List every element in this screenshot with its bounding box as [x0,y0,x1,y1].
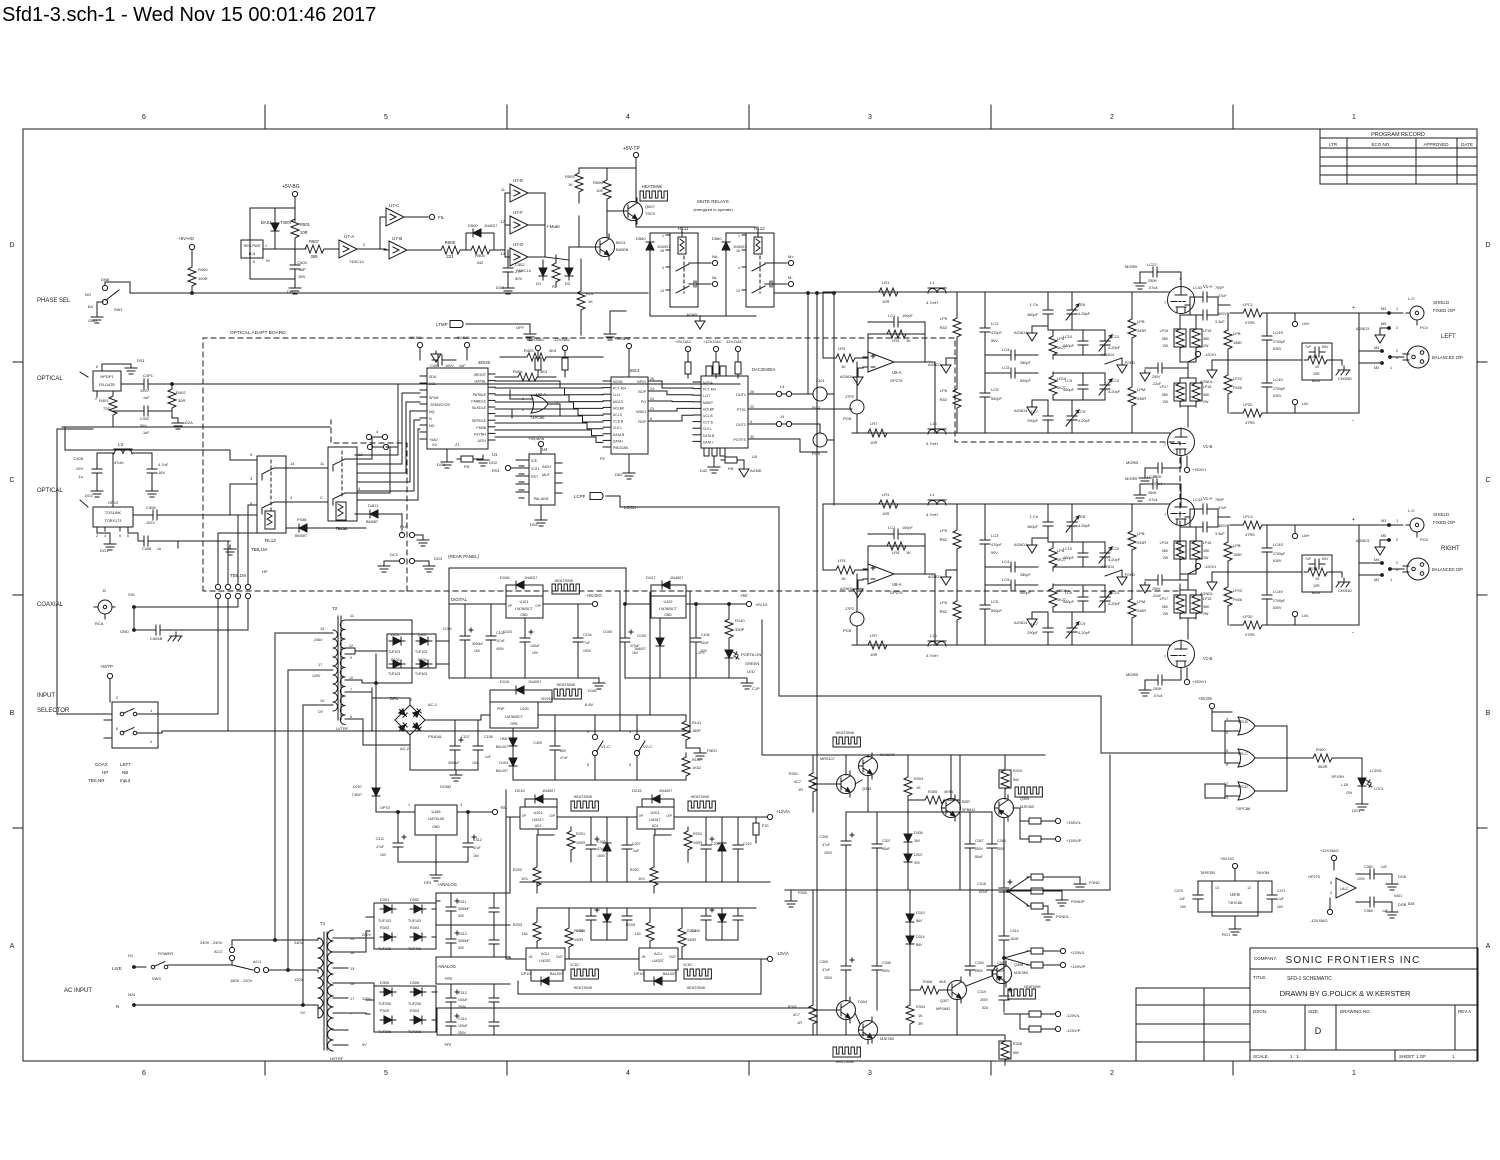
svg-text:FMBDLE: FMBDLE [471,399,486,403]
svg-text:TUF206: TUF206 [378,1030,391,1034]
svg-text:5W: 5W [1013,778,1019,782]
svg-text:17: 17 [350,997,354,1001]
svg-text:5: 5 [587,763,589,767]
svg-text:.47uF: .47uF [496,639,505,643]
svg-text:246R: 246R [1137,609,1146,613]
svg-text:5: 5 [384,114,388,121]
svg-text:-IN: -IN [528,955,533,959]
svg-text:74HC86: 74HC86 [1228,901,1242,905]
svg-text:2700pF: 2700pF [1273,599,1286,603]
svg-text:D103: D103 [503,630,512,634]
svg-text:680pF: 680pF [1063,556,1074,560]
svg-text:8: 8 [650,417,652,421]
svg-text:LR23: LR23 [1308,567,1317,571]
svg-text:LM317: LM317 [649,818,661,822]
svg-text:B6V: B6V [916,919,923,923]
svg-text:FSYNH: FSYNH [474,432,487,436]
svg-text:LE8: LE8 [1078,302,1086,307]
svg-text:RS1: RS1 [492,468,501,473]
svg-text:H1: H1 [128,953,134,958]
svg-text:NO: NO [429,424,435,428]
svg-text:LPC1: LPC1 [1243,514,1254,519]
svg-text:LEFT: LEFT [1441,334,1456,340]
svg-text:DC1: DC1 [390,552,399,557]
svg-text:250V: 250V [975,847,984,851]
svg-text:RL11: RL11 [678,226,689,231]
svg-text:11: 11 [501,187,506,192]
svg-text:16V: 16V [1277,905,1284,909]
svg-text:UCL B: UCL B [703,414,713,418]
svg-text:COMPANY.: COMPANY. [1254,956,1277,961]
svg-text:36K: 36K [1162,337,1169,341]
svg-text:500pF: 500pF [1020,379,1031,383]
svg-text:1K: 1K [918,1014,923,1018]
svg-text:C1P: C1P [752,686,760,691]
svg-text:.1uF: .1uF [458,364,466,368]
svg-text:PG: PG [641,400,646,404]
svg-text:ADJ: ADJ [652,824,659,828]
svg-text:C360: C360 [1364,865,1373,869]
svg-text:AC-2: AC-2 [400,746,410,751]
svg-text:DAC20400A: DAC20400A [752,367,775,372]
svg-text:TBS,NR: TBS,NR [88,778,105,783]
svg-text:SFM4: SFM4 [429,396,439,400]
svg-text:250K: 250K [1148,279,1157,283]
svg-text:2W: 2W [1163,344,1169,348]
svg-text:100uF: 100uF [530,644,540,648]
svg-text:/CG1: /CG1 [531,467,539,471]
svg-text:1K: 1K [1315,365,1320,369]
svg-text:74HC14: 74HC14 [349,259,364,264]
svg-text:HEATSINK: HEATSINK [642,184,663,189]
svg-text:REV.A: REV.A [1458,1009,1471,1014]
svg-text:HP: HP [262,569,268,574]
svg-text:1K: 1K [588,299,593,304]
svg-text:.1u: .1u [156,547,161,551]
svg-text:4: 4 [738,266,740,270]
svg-text:Q307: Q307 [940,999,949,1003]
svg-text:DG1: DG1 [437,462,446,467]
svg-text:(energized to operate): (energized to operate) [693,207,733,212]
svg-text:N: N [116,1004,119,1009]
svg-text:HEATSINK: HEATSINK [1024,985,1041,989]
svg-text:DIGITAL: DIGITAL [451,597,468,602]
svg-text:SW1: SW1 [114,307,123,312]
svg-text:U7-F: U7-F [513,210,523,215]
svg-text:TITLE:: TITLE: [1253,975,1267,980]
svg-text:500pF: 500pF [991,397,1002,401]
svg-text:MUTE RELAYS: MUTE RELAYS [697,199,728,204]
svg-text:.07u4: .07u4 [1148,498,1158,502]
svg-text:DSGN.: DSGN. [1253,1009,1267,1014]
svg-text:-120V1: -120V1 [1204,565,1216,569]
svg-text:6: 6 [127,534,129,538]
svg-text:LOC1: LOC1 [1374,787,1384,791]
svg-text:C309: C309 [819,960,828,964]
svg-text:FGND: FGND [1089,881,1100,885]
svg-text:TUF103: TUF103 [388,650,400,654]
svg-text:MPSA92: MPSA92 [936,1007,950,1011]
svg-text:36K: 36K [1203,605,1210,609]
svg-text:D107: D107 [646,575,656,580]
svg-text:C4P1: C4P1 [143,373,154,378]
svg-text:FIXED O/P: FIXED O/P [1433,520,1455,525]
svg-text:4: 4 [358,486,361,491]
svg-text:11: 11 [320,461,325,466]
svg-text:LPB: LPB [1233,543,1241,548]
svg-text:22: 22 [750,405,754,409]
svg-text:D62: D62 [615,472,623,477]
svg-text:U7-D: U7-D [513,242,524,247]
svg-text:OPTICAL: OPTICAL [37,488,63,494]
svg-text:C107: C107 [461,735,470,739]
svg-text:LC4: LC4 [1002,347,1010,352]
svg-text:D109: D109 [637,634,646,638]
svg-text:-12V/A: -12V/A [776,951,789,956]
svg-text:50V: 50V [991,551,998,555]
svg-text:LC9: LC9 [1078,621,1086,626]
svg-text:DATA B: DATA B [613,433,625,437]
svg-text:B: B [1486,710,1491,717]
svg-text:+12V/A: +12V/A [776,809,790,814]
svg-text:16V: 16V [158,470,165,475]
svg-text:L1P1: L1P1 [696,650,706,655]
svg-text:US-B: US-B [1238,719,1248,724]
svg-text:180P: 180P [692,729,701,733]
svg-text:P456: P456 [1233,386,1242,390]
svg-text:280pF: 280pF [1020,573,1031,577]
svg-text:LC49: LC49 [1273,589,1283,594]
svg-text:.1uF: .1uF [142,431,150,435]
svg-text:5: 5 [253,260,255,264]
svg-text:-12V,BAG: -12V,BAG [1310,918,1328,923]
svg-text:DATA I: DATA I [613,439,623,443]
svg-text:D104: D104 [499,761,508,765]
svg-text:C409: C409 [533,741,542,745]
svg-text:2: 2 [363,242,366,247]
svg-text:PROGRAM RECORD: PROGRAM RECORD [1371,132,1425,138]
svg-text:10R: 10R [882,299,889,304]
svg-text:U0: U0 [752,454,758,459]
svg-text:TUF403: TUF403 [408,947,421,951]
svg-text:DG3: DG3 [434,556,443,561]
svg-text:13: 13 [350,967,354,971]
svg-text:MCSB: MCSB [613,380,623,384]
svg-text:13: 13 [736,289,740,293]
svg-text:C408: C408 [142,547,151,551]
svg-text:+5V,DG: +5V,DG [1220,856,1234,861]
svg-text:LM7805CT: LM7805CT [515,607,534,611]
svg-text:C312: C312 [458,932,467,936]
svg-text:16V: 16V [473,854,480,858]
svg-text:LC3: LC3 [991,321,999,326]
svg-text:10: 10 [349,676,353,680]
svg-text:MJE350: MJE350 [1020,805,1034,809]
svg-text:100R: 100R [574,938,583,942]
svg-text:LP20: LP20 [1243,402,1253,407]
svg-text:4: 4 [290,495,293,500]
svg-text:AGNDL: AGNDL [1200,592,1213,596]
svg-text:MUT: MUT [542,473,551,477]
svg-text:2W: 2W [1163,612,1169,616]
svg-text:.07u4: .07u4 [1148,286,1158,290]
svg-text:N24: N24 [128,992,136,997]
svg-text:R400: R400 [1316,747,1326,752]
svg-text:MOSA: MOSA [703,381,714,385]
svg-text:4: 4 [662,266,664,270]
svg-text:HEATSINK: HEATSINK [836,1060,855,1064]
svg-text:100pF: 100pF [902,526,913,530]
svg-text:F20: F20 [762,824,769,828]
svg-text:C: C [1485,477,1490,484]
svg-text:LR23: LR23 [1308,355,1317,359]
svg-text:1N4007: 1N4007 [528,680,541,684]
svg-text:+12V,DAC: +12V,DAC [703,339,722,344]
svg-text:3: 3 [250,476,253,481]
svg-text:LM-: LM- [1302,401,1310,406]
svg-text:2: 2 [1110,1070,1114,1077]
svg-text:PGND: PGND [1125,361,1136,365]
svg-text:LC5: LC5 [1002,577,1010,582]
svg-text:LC22: LC22 [1147,474,1157,479]
svg-text:+150V/1: +150V/1 [1192,468,1206,472]
svg-text:GATBL: GATBL [474,380,486,384]
svg-text:MGRB: MGRB [1125,476,1137,481]
svg-text:R303: R303 [380,926,389,930]
svg-text:TUF206: TUF206 [408,1002,421,1006]
svg-text:13: 13 [1215,886,1219,890]
svg-text:7: 7 [350,688,352,692]
svg-text:442: 442 [477,260,484,265]
svg-text:D: D [1315,1026,1322,1036]
svg-text:DG4: DG4 [496,285,505,290]
svg-text:100V: 100V [445,364,454,368]
svg-text:+150V/P: +150V/P [1066,838,1082,843]
svg-text:LC5: LC5 [1002,365,1010,370]
svg-text:R52: R52 [940,609,948,614]
svg-text:500pF: 500pF [991,609,1002,613]
svg-text:47uF: 47uF [1218,506,1227,510]
svg-text:R201: R201 [693,832,702,836]
svg-text:74PC86: 74PC86 [1236,806,1251,811]
svg-text:6: 6 [142,114,146,121]
svg-text:AGND4: AGND4 [1014,409,1027,413]
svg-text:5W: 5W [1013,1051,1019,1055]
svg-text:DG2: DG2 [489,460,498,465]
svg-text:36K: 36K [1162,549,1169,553]
svg-text:10uF: 10uF [701,641,709,645]
svg-text:14: 14 [290,461,295,466]
svg-text:LPB: LPB [1137,319,1145,324]
svg-text:LR7: LR7 [870,633,878,638]
svg-text:MGRB: MGRB [1125,264,1137,269]
svg-text:LR4: LR4 [892,338,900,343]
svg-text:DRAWN BY G.POLICK & W.KERSTER: DRAWN BY G.POLICK & W.KERSTER [1280,989,1411,998]
svg-text:1N4007: 1N4007 [634,647,646,651]
svg-text:AC-1: AC-1 [428,702,438,707]
svg-text:1: 1 [1452,1054,1455,1059]
svg-text:4: 4 [1330,891,1332,895]
svg-text:4K8: 4K8 [939,980,946,984]
svg-text:C319: C319 [977,990,986,994]
svg-text:DS2: DS2 [530,522,539,527]
svg-text:250V: 250V [980,998,989,1002]
svg-text:1: 1 [738,234,740,238]
svg-text:AGND1: AGND1 [1014,331,1027,335]
svg-text:HEATSINK: HEATSINK [691,795,710,799]
svg-text:T4007: T4007 [352,793,362,797]
svg-text:+150V/1: +150V/1 [1192,680,1206,684]
svg-text:.82uF: .82uF [1010,937,1019,941]
svg-text:C210: C210 [743,842,752,846]
svg-text:LM337: LM337 [652,959,664,963]
svg-text:F5ED: F5ED [707,749,717,753]
svg-text:LC4: LC4 [1002,559,1010,564]
svg-text:8: 8 [350,715,352,719]
svg-text:D215: D215 [632,788,642,793]
svg-text:M4: M4 [1374,558,1379,562]
svg-text:R101: R101 [692,721,701,725]
svg-text:1: 1 [1352,114,1356,121]
svg-text:2: 2 [1110,114,1114,121]
svg-text:P456: P456 [1233,598,1242,602]
svg-text:T9C9: T9C9 [645,211,656,216]
svg-text:6: 6 [142,1070,146,1077]
svg-text:TUF206: TUF206 [408,1030,421,1034]
svg-text:5: 5 [384,1070,388,1077]
svg-text:SONIC FRONTIERS INC: SONIC FRONTIERS INC [1285,955,1420,966]
svg-text:+5V91G: +5V91G [540,697,553,701]
svg-text:C311: C311 [376,837,384,841]
svg-text:500pF: 500pF [1020,591,1031,595]
svg-text:.07u4: .07u4 [1153,694,1163,698]
svg-text:V1-B: V1-B [1203,656,1213,661]
svg-text:ACU: ACU [541,952,549,956]
svg-text:PATBLE: PATBLE [473,393,487,397]
svg-text:LP2C: LP2C [1233,589,1243,593]
svg-text:11: 11 [350,614,354,618]
svg-text:PC4: PC4 [1420,325,1429,330]
svg-text:U1: U1 [492,452,498,457]
svg-text:T1: T1 [320,921,326,926]
svg-text:24: 24 [650,397,654,401]
svg-text:3900uF: 3900uF [448,761,460,765]
svg-text:LC1: LC1 [888,313,896,318]
svg-text:26: 26 [750,390,754,394]
svg-text:+5V,DAC: +5V,DAC [675,339,692,344]
svg-text:1K: 1K [916,786,921,790]
svg-text:250K: 250K [1148,491,1157,495]
svg-text:250V: 250V [1152,375,1161,379]
svg-text:RST: RST [531,475,539,479]
svg-text:7uF: 7uF [1305,557,1312,561]
svg-text:R308: R308 [923,980,932,984]
svg-text:1: 1 [1390,578,1392,582]
svg-text:DP10: DP10 [634,972,644,976]
svg-text:SDA: SDA [429,375,437,379]
svg-text:INPUT: INPUT [37,693,55,699]
svg-text:7uF: 7uF [1305,345,1312,349]
svg-text:630V: 630V [1273,347,1282,351]
svg-text:7: 7 [1164,655,1166,659]
svg-text:N: N [429,417,432,421]
svg-text:LP5: LP5 [940,316,948,321]
svg-text:/CE: /CE [531,459,538,463]
svg-text:LP17: LP17 [1160,597,1168,601]
svg-text:BM08T: BM08T [366,520,379,524]
svg-text:T2: T2 [332,606,338,611]
svg-text:C207: C207 [632,842,641,846]
svg-text:LR1: LR1 [882,280,890,285]
svg-text:10K: 10K [596,188,603,193]
svg-text:OFF: OFF [516,325,525,330]
svg-text:Z1: Z1 [455,442,460,447]
svg-text:MCATI: MCATI [613,400,623,404]
svg-text:C314: C314 [1010,929,1019,933]
svg-text:LP18: LP18 [1203,597,1211,601]
svg-text:47R5: 47R5 [1245,420,1255,425]
svg-text:C471: C471 [1277,889,1286,893]
svg-text:HEATSINK: HEATSINK [574,795,593,799]
svg-text:L1: L1 [930,492,935,497]
svg-text:PCB: PCB [843,628,852,633]
svg-text:1K: 1K [841,364,846,369]
svg-text:250V: 250V [1152,587,1161,591]
svg-text:LR3: LR3 [838,346,846,351]
svg-text:4K4: 4K4 [549,348,557,353]
svg-text:PORTA ON: PORTA ON [741,652,761,657]
svg-text:47uF: 47uF [473,846,481,850]
svg-text:-IN: -IN [641,955,646,959]
svg-text:C312: C312 [473,838,482,842]
svg-text:VCDC: VCDC [683,963,693,967]
svg-text:10R: 10R [300,230,308,235]
svg-text:M+: M+ [788,254,794,259]
svg-text:MGRB: MGRB [1126,672,1138,677]
svg-text:1: 1 [265,244,267,248]
svg-text:C406: C406 [146,505,156,510]
svg-text:10R: 10R [882,511,889,516]
svg-text:470pF: 470pF [991,331,1002,335]
svg-text:0V: 0V [362,1043,367,1047]
svg-text:.1uF: .1uF [1380,865,1387,869]
svg-text:TUF206: TUF206 [378,1002,391,1006]
svg-text:5: 5 [1226,731,1228,735]
svg-text:6: 6 [96,365,98,369]
svg-text:.1u: .1u [77,474,83,479]
svg-text:1N4007: 1N4007 [733,245,746,249]
svg-text:LPM: LPM [1137,387,1145,392]
svg-text:Q309: Q309 [1020,797,1029,801]
svg-text:J2: J2 [102,588,107,593]
svg-text:4K93: 4K93 [944,790,953,794]
svg-text:100pF: 100pF [902,314,913,318]
svg-text:13: 13 [660,289,664,293]
svg-text:-120V/L: -120V/L [1066,1013,1081,1018]
svg-text:7: 7 [1164,513,1166,517]
svg-text:4: 4 [626,1070,630,1077]
svg-text:56P: 56P [298,267,305,272]
svg-text:161: 161 [522,932,528,936]
svg-text:R305: R305 [928,790,937,794]
svg-text:D2A: D2A [185,420,193,425]
svg-text:290pF: 290pF [1027,631,1038,635]
svg-text:3: 3 [460,803,462,807]
svg-text:BALANCED O/P: BALANCED O/P [1432,567,1463,572]
svg-text:LVTRF: LVTRF [336,726,349,731]
svg-text:.1uF: .1uF [484,755,491,759]
svg-text:SIG: SIG [128,592,135,597]
